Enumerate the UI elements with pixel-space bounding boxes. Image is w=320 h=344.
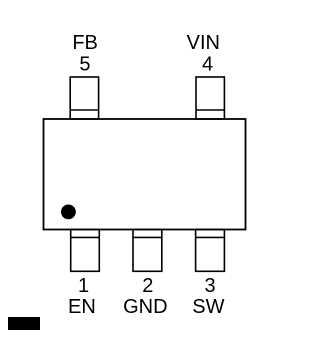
svg-text:EN: EN [68, 296, 96, 318]
pin 1 index dot marker [61, 205, 76, 220]
svg-text:FB: FB [72, 32, 98, 54]
pin 1 lead (EN, bottom-left) [71, 230, 100, 272]
pin 5 lead (FB, top-left) [70, 77, 98, 119]
svg-text:3: 3 [204, 275, 215, 297]
svg-text:4: 4 [202, 53, 213, 75]
pin 3 lead (SW, bottom-right) [196, 230, 225, 272]
svg-text:VIN: VIN [187, 32, 220, 54]
IC body U1 (SOT-23-5 package outline) [44, 119, 246, 230]
black bar artifact (bottom-left) [8, 317, 40, 330]
svg-text:SW: SW [192, 296, 224, 318]
svg-text:1: 1 [78, 275, 89, 297]
pin 2 lead (GND, bottom-middle) [133, 230, 162, 272]
svg-text:5: 5 [79, 53, 90, 75]
pin 4 lead (VIN, top-right) [196, 77, 224, 119]
svg-text:GND: GND [123, 296, 167, 318]
svg-text:2: 2 [142, 275, 153, 297]
